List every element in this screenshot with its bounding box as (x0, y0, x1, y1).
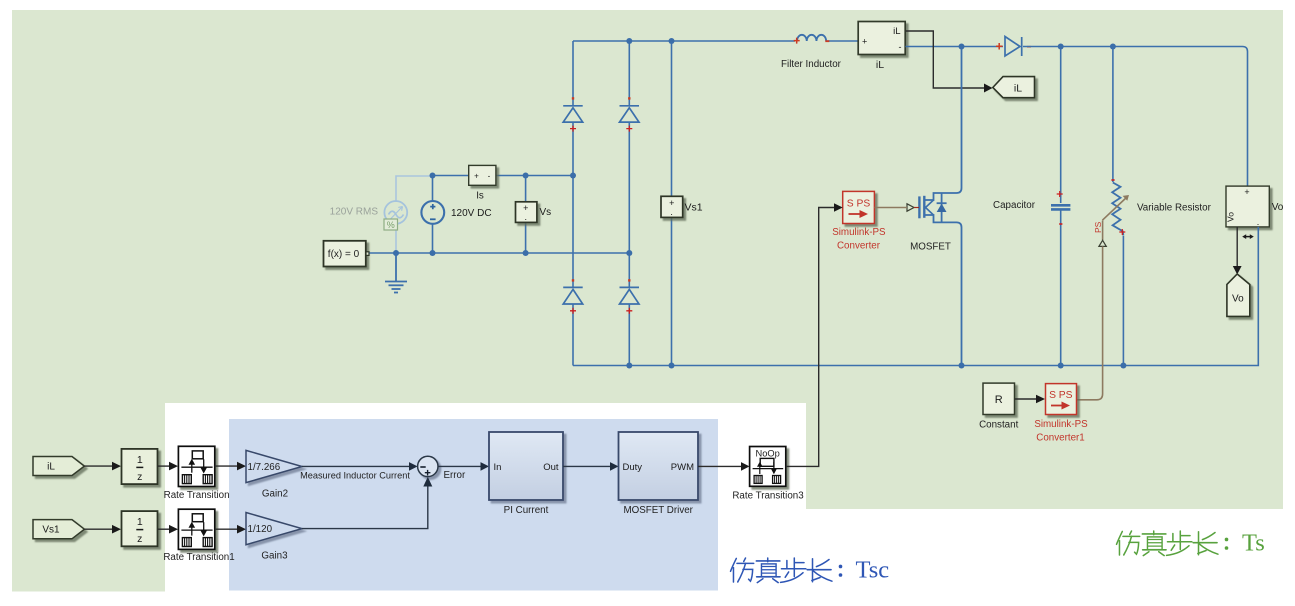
wire R to converter1 (1015, 398, 1037, 400)
junction (669, 38, 675, 44)
svg-text:Rate Transition3: Rate Transition3 (732, 491, 804, 502)
svg-text:Error: Error (444, 470, 467, 481)
wire gate stub (914, 207, 919, 209)
svg-text:-: - (899, 42, 902, 52)
wire PS down to converter1 (1077, 246, 1103, 399)
junction bridge left mid (570, 173, 576, 179)
svg-text:Vs1: Vs1 (685, 202, 703, 214)
wire PS wiper down (1102, 221, 1104, 241)
green canvas bottom-left extension (12, 400, 165, 592)
variable resistor R2 (1112, 47, 1123, 366)
wire RT to Gain2 (215, 465, 237, 467)
port MOSFET gate triangle (907, 204, 914, 211)
svg-text:R: R (995, 394, 1003, 406)
wire iL tag to unit delay (84, 465, 112, 467)
wire Vs1 leg (671, 41, 673, 366)
svg-text:S PS: S PS (1049, 390, 1073, 401)
svg-text:+: + (474, 172, 479, 181)
junction (523, 250, 529, 256)
diode D5 output (1005, 37, 1022, 57)
wire faded AC source top (396, 176, 431, 202)
svg-text:-: - (488, 172, 491, 181)
port marker capacitor - (1059, 223, 1062, 225)
svg-text:PS: PS (1093, 221, 1103, 233)
AC source V1 (faded) (384, 201, 407, 224)
junction (1058, 44, 1064, 50)
svg-text:Ts: Ts (1242, 530, 1265, 557)
unit delay 1/z (122, 449, 158, 484)
gain Gain2 (246, 450, 302, 482)
svg-text:Vo: Vo (1232, 294, 1244, 305)
junction (1058, 363, 1064, 369)
svg-text:Constant: Constant (979, 420, 1018, 431)
svg-text:z: z (137, 533, 142, 545)
svg-text:1: 1 (137, 454, 143, 466)
svg-text:.: . (1257, 217, 1260, 227)
svg-text:PWM: PWM (671, 462, 694, 473)
port marker varres + (1119, 229, 1125, 235)
wire faded AC source bottom (395, 230, 397, 253)
unit delay1 1/z (122, 511, 158, 546)
junction (430, 173, 436, 179)
voltage sensor Vs1 (661, 196, 683, 217)
wire top rail to inductor (573, 40, 795, 42)
svg-text:Rate Transition1: Rate Transition1 (163, 552, 234, 563)
svg-text:MOSFET Driver: MOSFET Driver (623, 505, 693, 516)
port marker varres top (1111, 179, 1114, 181)
svg-text:Measured Inductor Current: Measured Inductor Current (300, 471, 410, 481)
rate transition RT (178, 446, 214, 486)
svg-text:1/120: 1/120 (248, 524, 273, 535)
current sensor iL (858, 22, 905, 55)
svg-text:S PS: S PS (847, 199, 871, 210)
wire Driver to RT3 (698, 465, 741, 467)
svg-text:NoOp: NoOp (756, 449, 780, 459)
junction (959, 363, 965, 369)
junction (430, 250, 436, 256)
goto tag Vo (1227, 274, 1250, 316)
wire Gain3 to sum (302, 486, 428, 529)
ground symbol (385, 253, 407, 293)
voltage sensor Vs (516, 176, 537, 253)
svg-text:Filter Inductor: Filter Inductor (781, 59, 842, 70)
subsystem MOSFET Driver (619, 432, 699, 500)
capacitor C1 (1051, 47, 1070, 366)
junction (626, 363, 632, 369)
rate transition RT1 (178, 509, 214, 549)
wire inductor to iL (826, 40, 858, 42)
goto tag iL (993, 77, 1035, 98)
inductor Filter Inductor (797, 35, 826, 41)
subsystem PI Current (489, 432, 563, 500)
diode D1 (563, 106, 583, 122)
diode D4 (620, 287, 640, 304)
junction (393, 250, 399, 256)
svg-text:Vo: Vo (1272, 202, 1284, 213)
svg-text:Duty: Duty (623, 462, 643, 473)
constant R (983, 383, 1015, 414)
wire bridge right leg (628, 41, 630, 366)
port marker D1 dot (572, 97, 574, 99)
from tag iL (33, 457, 84, 476)
port PS triangle (1099, 240, 1106, 246)
wire Vo measurement down (1236, 227, 1238, 266)
wire varres wiper arrow (1102, 197, 1127, 221)
svg-text:Converter: Converter (837, 241, 881, 252)
port marker inductor - (825, 40, 829, 42)
voltage sensor Vo (1226, 186, 1270, 227)
svg-text:Out: Out (543, 462, 559, 473)
svg-text:%: % (387, 220, 395, 230)
port marker D4 + (626, 308, 632, 314)
diode D3 (563, 287, 583, 304)
wire bottom rail y365 (573, 365, 1258, 367)
wire bridge left leg (572, 41, 574, 366)
transistor MOSFET (919, 193, 946, 222)
wire RT3 to converter (786, 208, 834, 467)
wire sum to PI (438, 465, 481, 467)
wire PI to Driver (563, 465, 610, 467)
svg-text:+: + (862, 37, 867, 47)
solver f(x)=0 block (324, 241, 370, 267)
blue overlay panel (229, 419, 718, 591)
junction (959, 44, 965, 50)
port marker D1 + (570, 126, 576, 132)
port marker D4 dot (628, 279, 630, 281)
svg-text:Variable Resistor: Variable Resistor (1137, 203, 1212, 214)
svg-text:.: . (670, 207, 673, 217)
port marker capacitor + (1057, 191, 1063, 197)
icon double arrow (1245, 236, 1252, 238)
white overlay panel (165, 403, 806, 606)
svg-text:Tsc: Tsc (856, 557, 890, 584)
svg-text:iL: iL (876, 59, 884, 71)
svg-text:120V DC: 120V DC (451, 208, 492, 219)
port marker D3 + (570, 308, 576, 314)
wire y175 sources to bridge (431, 175, 469, 177)
label simulation step Ts (green) (1117, 530, 1265, 557)
svg-text:Is: Is (476, 191, 484, 202)
diode D2 (620, 106, 640, 122)
DC source 120V DC (421, 176, 444, 253)
svg-text:Simulink-PS: Simulink-PS (1034, 419, 1088, 430)
current sensor Is (469, 165, 496, 185)
wire unit delay1 to RT1 (158, 528, 170, 530)
wire Gain2 to sum (302, 465, 409, 467)
svg-text:Vs1: Vs1 (42, 525, 60, 536)
wire diode to right corner (1023, 47, 1248, 187)
wire iL measurement out (906, 31, 985, 88)
junction (1120, 363, 1126, 369)
svg-text:Vo: Vo (1226, 212, 1236, 222)
junction (1110, 44, 1116, 50)
svg-text:iL: iL (1014, 83, 1022, 95)
port marker D2 + (626, 126, 632, 132)
junction bridge right mid (626, 250, 632, 256)
svg-text:+: + (1244, 187, 1249, 197)
wire Vo minus to bottom rail (1257, 227, 1259, 366)
sum S1 (418, 456, 438, 476)
svg-text:Gain3: Gain3 (261, 551, 288, 562)
port marker diode - (1027, 46, 1031, 48)
rate transition RT3 (750, 447, 786, 487)
svg-text:Gain2: Gain2 (262, 489, 288, 500)
junction (626, 38, 632, 44)
svg-text:120V RMS: 120V RMS (330, 207, 379, 218)
port marker D2 dot (628, 97, 630, 99)
svg-text:z: z (137, 471, 142, 483)
svg-text:MOSFET: MOSFET (910, 242, 951, 253)
svg-text:Simulink-PS: Simulink-PS (832, 227, 886, 238)
gain Gain3 (246, 513, 302, 545)
port marker diode + (996, 43, 1003, 50)
svg-text:Converter1: Converter1 (1036, 433, 1084, 444)
svg-text:Capacitor: Capacitor (993, 200, 1036, 211)
AC source percent box (faded) (384, 219, 398, 230)
converter U2 Simulink-PS Converter1 (1046, 384, 1077, 415)
svg-text:PI Current: PI Current (504, 505, 549, 516)
svg-text:1/7.266: 1/7.266 (248, 462, 281, 473)
svg-text:1: 1 (137, 516, 143, 528)
svg-text:iL: iL (893, 26, 900, 37)
wire RT1 to Gain3 (215, 528, 237, 530)
wire unit delay to RT (158, 465, 170, 467)
wire iL out to diode (906, 46, 1004, 48)
wire converter PS out to gate (874, 207, 907, 209)
port marker inductor + (794, 38, 800, 44)
svg-text:Vs: Vs (540, 207, 552, 218)
from tag Vs1 (33, 520, 84, 539)
svg-text:.: . (525, 212, 528, 222)
svg-text:iL: iL (47, 462, 55, 473)
wire MOSFET drain (924, 47, 961, 201)
svg-text:f(x) = 0: f(x) = 0 (328, 249, 360, 260)
wire ground rail y253 (370, 252, 630, 254)
label simulation step Tsc (blue) (731, 557, 890, 584)
junction (669, 363, 675, 369)
junction (523, 173, 529, 179)
converter U1 Simulink-PS Converter (843, 191, 875, 223)
wire MOSFET source (924, 215, 961, 366)
port marker D3 dot (572, 279, 574, 281)
svg-text:Rate Transition: Rate Transition (164, 490, 230, 501)
svg-text:In: In (494, 462, 502, 473)
wire Vs1 tag to unit delay1 (84, 528, 112, 530)
